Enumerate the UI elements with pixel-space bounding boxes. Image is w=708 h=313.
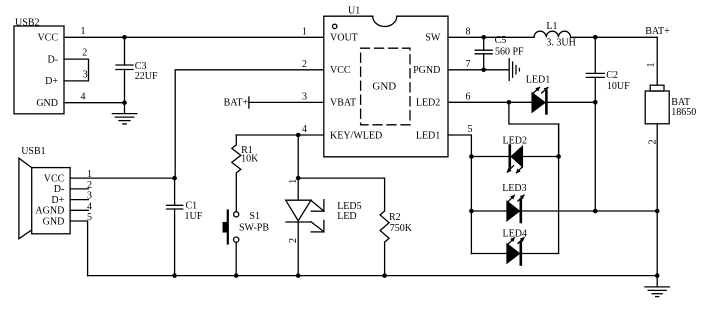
svg-text:LED4: LED4 <box>503 228 527 239</box>
svg-text:2: 2 <box>302 59 307 70</box>
svg-text:C2: C2 <box>606 70 618 81</box>
svg-text:AGND: AGND <box>35 206 64 217</box>
svg-text:GND: GND <box>36 98 58 109</box>
svg-text:C5: C5 <box>495 35 507 46</box>
svg-text:D-: D- <box>47 54 58 65</box>
svg-text:D-: D- <box>54 184 65 195</box>
svg-text:1: 1 <box>646 63 657 68</box>
svg-text:5: 5 <box>468 124 473 135</box>
svg-text:2: 2 <box>288 238 299 243</box>
svg-text:LED1: LED1 <box>416 130 440 141</box>
svg-text:6: 6 <box>466 91 471 102</box>
svg-text:D+: D+ <box>45 76 58 87</box>
svg-text:4: 4 <box>87 201 92 212</box>
svg-text:LED2: LED2 <box>503 135 527 146</box>
svg-text:8: 8 <box>466 26 471 37</box>
svg-text:22UF: 22UF <box>135 71 158 82</box>
svg-text:5: 5 <box>87 212 92 223</box>
svg-text:LED: LED <box>337 211 356 222</box>
svg-text:LED3: LED3 <box>502 183 526 194</box>
svg-text:KEY/WLED: KEY/WLED <box>330 130 382 141</box>
svg-text:VBAT: VBAT <box>330 98 356 109</box>
svg-text:3: 3 <box>87 191 92 202</box>
svg-text:PGND: PGND <box>413 65 440 76</box>
svg-text:USB1: USB1 <box>21 146 45 157</box>
svg-text:1UF: 1UF <box>185 211 203 222</box>
svg-text:3: 3 <box>302 91 307 102</box>
svg-text:SW: SW <box>425 33 441 44</box>
svg-text:USB2: USB2 <box>15 17 39 28</box>
svg-text:1: 1 <box>81 26 86 37</box>
svg-text:GND: GND <box>372 81 396 93</box>
svg-text:VCC: VCC <box>44 173 65 184</box>
svg-text:2: 2 <box>82 48 87 59</box>
svg-text:7: 7 <box>466 59 471 70</box>
svg-text:1: 1 <box>87 169 92 180</box>
svg-text:LED2: LED2 <box>416 98 440 109</box>
svg-text:18650: 18650 <box>671 107 696 118</box>
svg-text:3. 3UH: 3. 3UH <box>546 38 575 49</box>
svg-text:S1: S1 <box>249 211 260 222</box>
svg-text:GND: GND <box>43 216 65 227</box>
svg-text:BAT+: BAT+ <box>645 26 670 37</box>
svg-text:2: 2 <box>648 140 659 145</box>
svg-text:2: 2 <box>87 180 92 191</box>
svg-text:4: 4 <box>302 124 307 135</box>
svg-text:SW-PB: SW-PB <box>239 222 269 233</box>
svg-text:D+: D+ <box>51 195 64 206</box>
svg-text:LED1: LED1 <box>526 75 550 86</box>
svg-text:VCC: VCC <box>37 33 58 44</box>
svg-text:560 PF: 560 PF <box>495 47 524 58</box>
svg-text:L1: L1 <box>546 21 557 32</box>
svg-text:3: 3 <box>83 70 88 81</box>
svg-text:1: 1 <box>302 26 307 37</box>
svg-text:10K: 10K <box>241 153 259 164</box>
svg-text:750K: 750K <box>390 223 413 234</box>
svg-text:R2: R2 <box>389 212 401 223</box>
svg-text:VCC: VCC <box>330 65 351 76</box>
svg-text:U1: U1 <box>348 5 360 16</box>
svg-text:VOUT: VOUT <box>330 33 358 44</box>
svg-text:10UF: 10UF <box>607 81 630 92</box>
svg-text:BAT+: BAT+ <box>224 98 249 109</box>
svg-text:1: 1 <box>288 179 299 184</box>
svg-text:4: 4 <box>81 91 86 102</box>
